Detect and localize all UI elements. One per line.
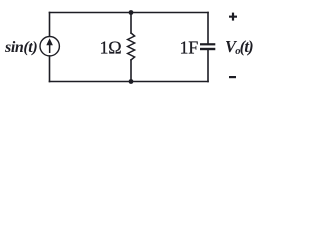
- resistor R1 zigzag: [128, 33, 135, 60]
- wire bottom: [50, 81, 209, 83]
- capacitor C1 bottom plate: [200, 48, 215, 50]
- wire left-bottom (source to bottom rail): [49, 56, 51, 82]
- node junction bottom (resistor/bottom rail): [129, 79, 134, 84]
- node junction top (resistor/top rail): [129, 10, 134, 15]
- svg-text:Vo(t): Vo(t): [225, 37, 253, 57]
- polarity plus sign: [229, 13, 237, 21]
- wire resistor bottom: [130, 60, 132, 82]
- wire top: [50, 12, 209, 14]
- wire left-top (source to top rail): [49, 13, 51, 37]
- polarity minus sign: [229, 76, 236, 78]
- svg-text:1F: 1F: [180, 37, 199, 57]
- svg-text:1Ω: 1Ω: [100, 37, 122, 57]
- wire capacitor bottom: [207, 50, 209, 82]
- capacitor C1 top plate: [200, 43, 215, 45]
- svg-text:sin(t): sin(t): [4, 39, 37, 56]
- current source I1 circle: [40, 37, 59, 56]
- current source I1 arrow: [46, 38, 53, 53]
- wire capacitor top: [207, 13, 209, 44]
- wire resistor top: [130, 13, 132, 34]
